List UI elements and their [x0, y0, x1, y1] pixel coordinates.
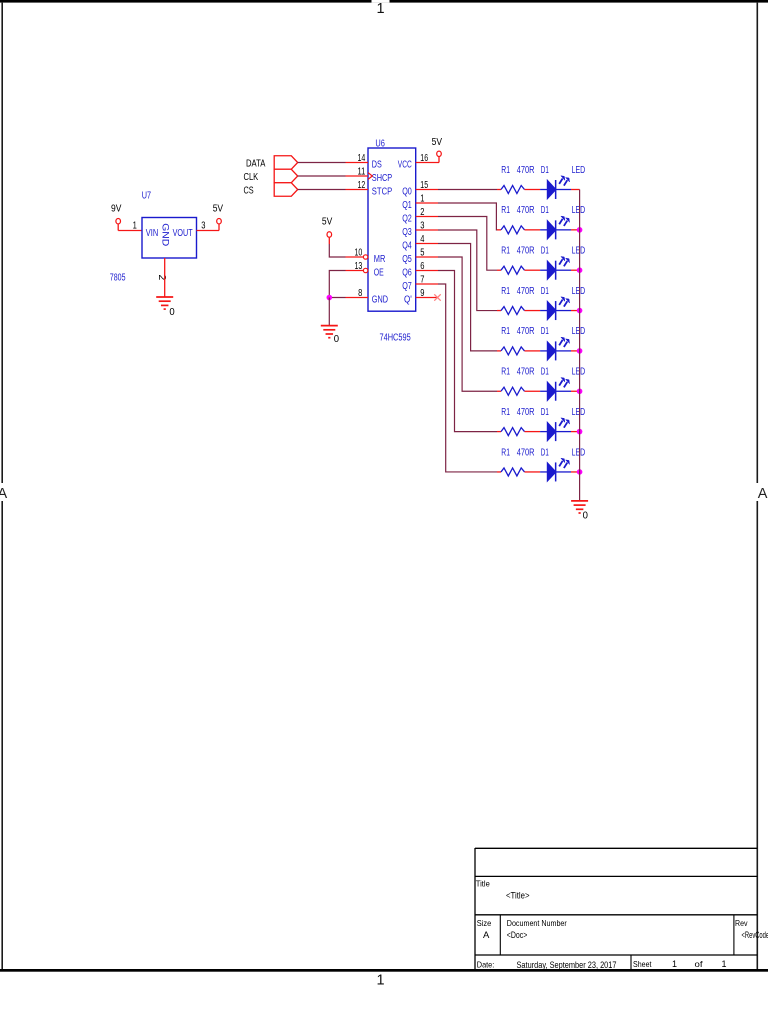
svg-text:Sheet: Sheet — [633, 959, 652, 969]
cathode bus wire — [579, 190, 581, 501]
U6 pin name Q1 — [402, 200, 412, 211]
ground 0 (LED chain) — [571, 501, 588, 522]
U6 pin name SHCP — [372, 173, 393, 184]
svg-text:0: 0 — [169, 307, 175, 318]
U6 pin name Q5 — [402, 254, 412, 265]
svg-text:D1: D1 — [541, 246, 549, 257]
U6 pin stub VCC — [416, 162, 439, 164]
hierarchical port CLK — [244, 169, 298, 183]
svg-text:1: 1 — [133, 221, 138, 232]
U6 pin stub Q6 — [416, 270, 438, 272]
resistor R1 470R (row 3) — [497, 246, 540, 275]
resistor R1 470R (row 7) — [497, 407, 540, 436]
LED D1 (row 6) — [540, 367, 585, 401]
svg-text:LED: LED — [572, 326, 586, 337]
svg-text:D1: D1 — [541, 326, 549, 337]
title block value <RevCode> — [742, 930, 768, 941]
resistor R1 470R (row 8) — [497, 447, 540, 476]
pin number 3 — [201, 221, 206, 232]
title block sheet number 1 — [672, 959, 677, 969]
svg-text:DS: DS — [372, 160, 382, 171]
title block label Rev — [735, 918, 748, 928]
svg-text:LED: LED — [572, 407, 586, 418]
svg-text:Title: Title — [476, 878, 490, 888]
wire Q2 to R1 (row 3) — [438, 217, 497, 271]
title block label Sheet — [633, 959, 652, 969]
svg-text:2: 2 — [156, 275, 167, 281]
U6 value 74HC595 — [380, 333, 412, 344]
title block label Title — [476, 878, 490, 888]
junction (OE/GND net) — [327, 295, 333, 301]
U6 pin stub Q3 — [416, 229, 438, 231]
svg-text:9V: 9V — [111, 203, 122, 214]
voltage regulator U7 box — [142, 218, 197, 259]
wire Q4 to R1 (row 5) — [438, 244, 497, 351]
sheet border left edge — [1, 3, 3, 969]
svg-text:470R: 470R — [517, 286, 535, 297]
resistor R1 470R (row 5) — [497, 326, 540, 355]
title block value <Title> — [506, 891, 530, 902]
pin number 14 — [358, 153, 366, 164]
wire Q6 to R1 (row 7) — [438, 271, 497, 432]
wire LED cathode to bus (row 4) — [571, 310, 580, 312]
svg-text:R1: R1 — [501, 367, 510, 378]
svg-text:470R: 470R — [517, 205, 535, 216]
wire DATA to U6 — [298, 162, 346, 164]
U6 pin name Q2 — [402, 214, 412, 225]
svg-text:<RevCode>: <RevCode> — [742, 930, 768, 941]
U7 pin name VOUT — [173, 228, 193, 239]
junction on cathode bus (row 3) — [577, 267, 583, 273]
svg-text:1: 1 — [376, 972, 384, 988]
svg-text:LED: LED — [572, 246, 586, 257]
svg-text:D1: D1 — [541, 367, 549, 378]
resistor R1 470R (row 1) — [497, 165, 540, 194]
wire LED cathode to bus (row 1) — [571, 189, 580, 191]
svg-text:D1: D1 — [541, 205, 549, 216]
wire U7 pin 3 to 5V — [197, 224, 220, 231]
U6 pin stub GND — [346, 297, 369, 299]
title block label Document Number — [507, 918, 567, 928]
svg-text:DATA: DATA — [246, 158, 266, 169]
svg-text:D1: D1 — [541, 165, 549, 176]
svg-text:A: A — [0, 486, 7, 502]
U6 pin name Q7 — [402, 281, 412, 292]
svg-text:R1: R1 — [501, 165, 510, 176]
svg-text:Rev: Rev — [735, 918, 748, 928]
power port 9V — [111, 203, 122, 230]
pin number 1 — [133, 221, 138, 232]
LED D1 (row 5) — [540, 326, 585, 360]
U6 pin stub MR with bubble — [346, 255, 368, 259]
resistor R1 470R (row 2) — [497, 205, 540, 234]
resistor R1 470R (row 6) — [497, 367, 540, 396]
pin number 15 — [420, 180, 428, 191]
hierarchical port DATA — [246, 156, 298, 170]
U6 pin stub OE with bubble — [346, 268, 368, 272]
pin number 13 — [355, 261, 363, 272]
U6 pin name Q4 — [402, 241, 412, 252]
U6 pin stub STCP — [346, 189, 369, 191]
U6 pin name OE — [374, 268, 384, 279]
pin number 12 — [358, 180, 366, 191]
pin number 4 — [420, 234, 425, 245]
pin number 5 — [420, 248, 425, 259]
power port 5V (MR) — [322, 216, 333, 244]
U6 pin stub SHCP with clock mark — [346, 173, 373, 180]
svg-text:Q2: Q2 — [402, 214, 412, 225]
svg-text:74HC595: 74HC595 — [380, 333, 412, 344]
junction on cathode bus (row 2) — [577, 227, 583, 233]
pin number 2 — [420, 207, 425, 218]
title block value date — [517, 960, 617, 971]
LED D1 (row 7) — [540, 407, 585, 441]
pin number 16 — [420, 153, 428, 164]
title block total sheets 1 — [722, 959, 727, 969]
junction on cathode bus (row 8) — [577, 469, 583, 475]
pin number 1 — [420, 194, 425, 205]
shift register U6 box — [368, 148, 416, 311]
U6 pin name STCP — [372, 187, 393, 198]
svg-text:CLK: CLK — [244, 172, 259, 183]
no-connect X on Q' — [434, 294, 440, 300]
svg-text:5V: 5V — [432, 137, 443, 148]
LED D1 (row 2) — [540, 205, 585, 239]
U6 reference designator — [375, 138, 385, 150]
svg-text:STCP: STCP — [372, 187, 393, 198]
sheet border bottom edge — [0, 969, 768, 972]
title block label Date — [477, 959, 495, 969]
wire 5V to MR — [329, 244, 345, 257]
U6 pin stub Q7 — [416, 283, 438, 285]
wire Q0 to R1 (row 1) — [438, 189, 497, 191]
svg-text:LED: LED — [572, 447, 586, 458]
U6 pin name Q' — [404, 295, 412, 306]
wire Q7 to R1 (row 8) — [438, 284, 497, 472]
svg-text:GND: GND — [372, 295, 388, 306]
zone label 1 (bottom) — [376, 972, 384, 988]
svg-text:LED: LED — [572, 205, 586, 216]
svg-text:0: 0 — [583, 511, 589, 522]
wire OE to GND net — [329, 271, 345, 298]
hierarchical port CS — [244, 183, 298, 197]
wire Q1 to R1 (row 2) — [438, 203, 497, 230]
U6 pin stub Q2 — [416, 216, 438, 218]
svg-text:R1: R1 — [501, 286, 510, 297]
U6 pin name Q6 — [402, 268, 412, 279]
svg-text:LED: LED — [572, 165, 586, 176]
ground 0 (U6) — [321, 326, 340, 346]
LED D1 (row 3) — [540, 246, 585, 280]
svg-text:R1: R1 — [501, 407, 510, 418]
LED D1 (row 4) — [540, 286, 585, 320]
svg-text:of: of — [695, 959, 704, 969]
svg-text:R1: R1 — [501, 447, 510, 458]
zone label A (left) — [0, 486, 7, 502]
pin number 9 — [420, 288, 425, 299]
wire LED cathode to bus (row 2) — [571, 229, 580, 231]
wire junction to ground — [328, 298, 330, 326]
power port 5V (U7 output) — [213, 203, 224, 224]
title block value <Doc> — [507, 930, 528, 941]
svg-text:LED: LED — [572, 367, 586, 378]
zone label 1 (top) — [376, 1, 384, 17]
U6 pin name Q3 — [402, 227, 412, 238]
svg-text:R1: R1 — [501, 246, 510, 257]
wire GND pin to junction — [329, 297, 345, 299]
svg-text:7805: 7805 — [110, 273, 126, 284]
zone label A (right) — [758, 486, 768, 502]
svg-text:R1: R1 — [501, 205, 510, 216]
svg-text:Q': Q' — [404, 295, 412, 306]
svg-text:1: 1 — [376, 1, 384, 17]
title block frame — [475, 848, 757, 969]
svg-text:A: A — [483, 930, 490, 941]
svg-text:SHCP: SHCP — [372, 173, 393, 184]
junction on cathode bus (row 6) — [577, 388, 583, 394]
svg-text:VOUT: VOUT — [173, 228, 193, 239]
svg-text:470R: 470R — [517, 165, 535, 176]
svg-text:Date:: Date: — [477, 959, 495, 969]
U6 pin stub Q' — [416, 297, 438, 299]
wire Q5 to R1 (row 6) — [438, 257, 497, 391]
svg-text:Q6: Q6 — [402, 268, 412, 279]
wire Q3 to R1 (row 4) — [438, 230, 497, 311]
LED D1 (row 8) — [540, 447, 585, 481]
svg-text:Saturday, September 23, 2017: Saturday, September 23, 2017 — [517, 960, 617, 971]
svg-text:1: 1 — [722, 959, 727, 969]
pin number 11 — [358, 167, 366, 178]
title block label of — [695, 959, 704, 969]
U6 pin name VCC — [398, 160, 412, 171]
pin number 10 — [355, 248, 363, 259]
svg-text:5V: 5V — [322, 216, 333, 227]
U6 pin stub Q1 — [416, 202, 438, 204]
title block label Size — [477, 918, 492, 928]
wire LED cathode to bus (row 5) — [571, 350, 580, 352]
svg-text:Q7: Q7 — [402, 281, 412, 292]
svg-text:CS: CS — [244, 185, 254, 196]
svg-text:D1: D1 — [541, 286, 549, 297]
junction on cathode bus (row 4) — [577, 308, 583, 314]
LED D1 (row 1) — [540, 165, 585, 199]
U7 pin name GND (rotated) — [160, 223, 170, 247]
svg-text:VCC: VCC — [398, 160, 412, 171]
wire LED cathode to bus (row 7) — [571, 431, 580, 433]
U6 pin stub DS — [346, 162, 369, 164]
junction on cathode bus (row 5) — [577, 348, 583, 354]
svg-text:Q1: Q1 — [402, 200, 412, 211]
svg-text:Q5: Q5 — [402, 254, 412, 265]
svg-text:Q3: Q3 — [402, 227, 412, 238]
svg-text:D1: D1 — [541, 407, 549, 418]
U7 reference designator — [142, 190, 151, 202]
wire 9V to U7 pin 1 — [118, 230, 142, 232]
wire CS to U6 — [298, 189, 346, 191]
svg-text:470R: 470R — [517, 367, 535, 378]
U6 pin name DS — [372, 160, 382, 171]
pin number 6 — [420, 261, 425, 272]
wire U7 pin 2 to ground — [164, 258, 166, 297]
U6 pin stub Q0 — [416, 189, 438, 191]
svg-text:VIN: VIN — [146, 228, 158, 239]
svg-text:5V: 5V — [213, 203, 224, 214]
svg-text:470R: 470R — [517, 407, 535, 418]
U6 pin stub Q5 — [416, 256, 438, 258]
pin number 2 (rotated) — [156, 275, 167, 281]
svg-text:Size: Size — [477, 918, 492, 928]
svg-text:0: 0 — [334, 334, 340, 345]
svg-text:Document Number: Document Number — [507, 918, 567, 928]
svg-text:U6: U6 — [375, 138, 385, 150]
U7 pin name VIN — [146, 228, 158, 239]
svg-text:470R: 470R — [517, 447, 535, 458]
pin number 7 — [420, 275, 425, 286]
svg-text:GND: GND — [160, 223, 170, 247]
svg-text:470R: 470R — [517, 246, 535, 257]
svg-text:R1: R1 — [501, 326, 510, 337]
junction on cathode bus (row 7) — [577, 429, 583, 435]
U7 value 7805 — [110, 273, 126, 284]
svg-text:1: 1 — [672, 959, 677, 969]
svg-text:A: A — [758, 486, 768, 502]
wire CLK to U6 — [298, 175, 346, 177]
svg-text:Q0: Q0 — [402, 187, 412, 198]
U6 pin name Q0 — [402, 187, 412, 198]
svg-text:470R: 470R — [517, 326, 535, 337]
U6 pin stub Q4 — [416, 243, 438, 245]
sheet border right edge — [756, 3, 758, 969]
svg-text:D1: D1 — [541, 447, 549, 458]
U6 pin name MR — [374, 254, 386, 265]
svg-text:U7: U7 — [142, 190, 151, 202]
svg-text:OE: OE — [374, 268, 384, 279]
wire LED cathode to bus (row 3) — [571, 269, 580, 271]
wire LED cathode to bus (row 8) — [571, 471, 580, 473]
wire LED cathode to bus (row 6) — [571, 390, 580, 392]
title block value A — [483, 930, 490, 941]
svg-text:Q4: Q4 — [402, 241, 412, 252]
ground 0 (U7) — [156, 297, 175, 318]
svg-text:MR: MR — [374, 254, 386, 265]
svg-text:LED: LED — [572, 286, 586, 297]
U6 pin name GND — [372, 295, 388, 306]
svg-text:<Title>: <Title> — [506, 891, 530, 902]
svg-text:<Doc>: <Doc> — [507, 930, 528, 941]
power port 5V (VCC) — [432, 137, 443, 163]
pin number 3 — [420, 221, 425, 232]
pin number 8 — [358, 288, 363, 299]
resistor R1 470R (row 4) — [497, 286, 540, 315]
sheet border top edge — [0, 0, 768, 3]
